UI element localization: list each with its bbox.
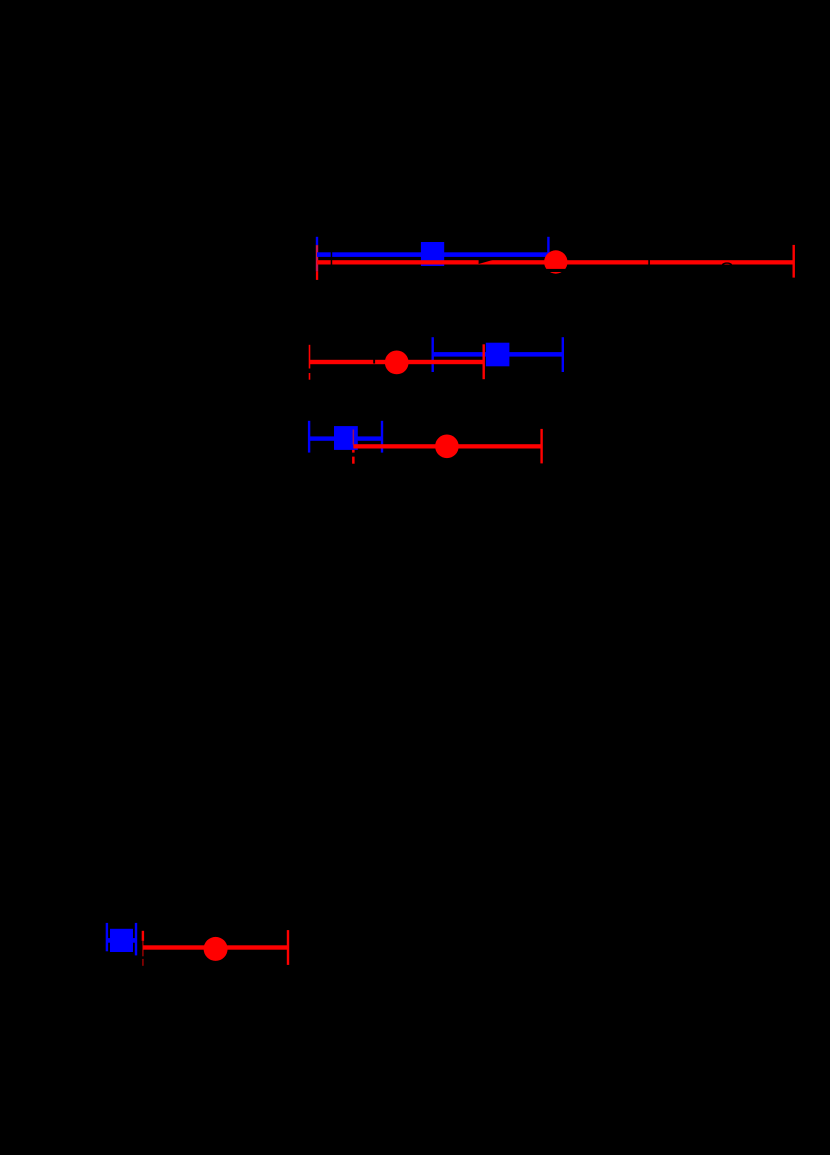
row2 red errorbar line bbox=[310, 360, 484, 364]
row3 red circle marker bbox=[435, 435, 459, 459]
row1 black tick occlusion mid bbox=[648, 259, 650, 266]
row1 black band under circle bbox=[542, 269, 572, 272]
row3 black band occlusion bbox=[297, 453, 401, 457]
row1 black arrow wedge occlusion bbox=[479, 260, 494, 264]
row2 red errorbar right cap bbox=[483, 344, 485, 379]
row2 blue errorbar line bbox=[433, 352, 563, 357]
row3 blue errorbar right cap bbox=[381, 421, 383, 456]
row2 black tick occlusion bbox=[373, 358, 375, 363]
row1 red errorbar right cap bbox=[793, 245, 795, 278]
row2 blue errorbar left cap bbox=[432, 337, 434, 372]
row2 blue square marker bbox=[486, 343, 510, 367]
row3 blue errorbar line bbox=[309, 436, 382, 440]
row1 blue/red cap overlap blend bbox=[316, 245, 318, 271]
row2 red errorbar left cap bbox=[309, 345, 311, 380]
row4 red errorbar line bbox=[143, 945, 288, 949]
row1 red errorbar left cap lower part bbox=[316, 271, 318, 280]
row4 red circle marker bbox=[204, 937, 228, 961]
row1 red circle marker bbox=[544, 250, 567, 273]
row4 red errorbar left cap dark part bbox=[142, 941, 144, 956]
row1 blue errorbar right cap bbox=[547, 237, 549, 272]
row3 blue square marker bbox=[334, 426, 358, 450]
row1 black tick occlusion left bbox=[331, 251, 333, 267]
row3 red errorbar left cap bbox=[352, 429, 355, 464]
row4 red errorbar right cap bbox=[287, 930, 289, 965]
row3 red errorbar line bbox=[353, 444, 541, 448]
row4 blue errorbar line bbox=[107, 938, 136, 943]
row3 red cap stripe over square bbox=[353, 430, 355, 445]
row3 red errorbar right cap bbox=[540, 429, 542, 464]
row4 blue errorbar left cap bbox=[106, 923, 108, 951]
row2 blue errorbar right cap bbox=[562, 337, 564, 372]
row1 blue square marker bbox=[421, 242, 444, 266]
row4 red errorbar left cap bright part bbox=[142, 931, 144, 941]
row1 red errorbar line bbox=[317, 260, 794, 264]
row4 red errorbar left cap dark lower dash bbox=[142, 959, 144, 966]
row1 blue errorbar left cap bbox=[316, 237, 318, 245]
row1 black ellipse occlusion bbox=[722, 263, 731, 267]
row3 blue errorbar left cap bbox=[308, 421, 310, 456]
row2 red circle marker bbox=[385, 351, 409, 375]
row1 blue errorbar line bbox=[317, 252, 548, 257]
row4 blue errorbar right cap bbox=[135, 923, 137, 956]
row4 blue square marker bbox=[110, 929, 133, 952]
row2 black dash gap on left cap bbox=[308, 369, 311, 374]
